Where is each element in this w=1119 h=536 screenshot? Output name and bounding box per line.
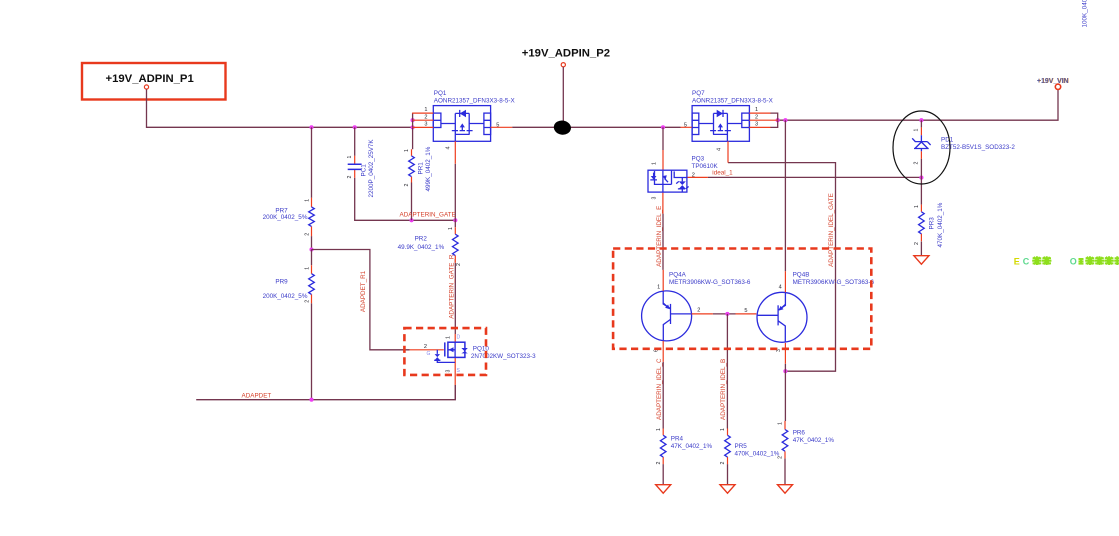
diode PD1 zener — [912, 127, 1015, 164]
svg-text:1: 1 — [404, 149, 410, 152]
svg-text:1: 1 — [657, 284, 660, 290]
wire PQ4B pin3 to PR6 — [784, 364, 786, 421]
svg-text:PR4: PR4 — [671, 435, 684, 442]
ground PR3 — [914, 256, 929, 265]
svg-text:D: D — [457, 335, 461, 341]
port +19V_VIN — [1037, 78, 1069, 90]
svg-text:PQ4A: PQ4A — [669, 272, 687, 279]
wire PR6 bottom — [784, 458, 786, 484]
wire PR3 bottom — [920, 242, 922, 256]
wire PD1 to PR3 — [920, 159, 922, 205]
svg-text:1: 1 — [424, 107, 427, 113]
svg-text:200K_0402_5%: 200K_0402_5% — [263, 293, 308, 300]
svg-text:1: 1 — [448, 227, 454, 230]
svg-text:1: 1 — [914, 129, 920, 132]
svg-text:ADAPDET: ADAPDET — [242, 393, 272, 400]
svg-text:3: 3 — [424, 122, 427, 128]
svg-text:BZT52-B5V1S_SOD323-2: BZT52-B5V1S_SOD323-2 — [941, 144, 1015, 151]
svg-text:4: 4 — [779, 284, 782, 290]
junction PR1 bottom — [409, 218, 413, 222]
svg-text:2: 2 — [424, 344, 427, 350]
green annotation O block — [1070, 256, 1119, 266]
svg-text:ADAPTERIN_GATE: ADAPTERIN_GATE — [400, 212, 456, 219]
wire PR2 bottom to PQ10 drain — [454, 263, 456, 334]
svg-text:3: 3 — [446, 370, 452, 373]
junction PD1 top — [919, 118, 923, 122]
wire PQ4A/PQ4B base link — [713, 313, 736, 315]
svg-text:ADAPTERIN_IDEL_E: ADAPTERIN_IDEL_E — [656, 206, 663, 267]
svg-text:C: C — [1023, 256, 1030, 266]
svg-text:2: 2 — [304, 233, 310, 236]
svg-text:PQ4B: PQ4B — [793, 272, 810, 279]
resistor PR2 — [398, 227, 462, 266]
svg-text:2: 2 — [347, 176, 353, 179]
svg-text:2: 2 — [424, 114, 427, 120]
junction PQ7 pin2 — [776, 118, 780, 122]
svg-text:4: 4 — [716, 148, 722, 151]
wire ideal_1 PQ3 pin2 to PD1 — [708, 176, 922, 178]
wire PD1 top stub upper — [920, 120, 922, 127]
svg-text:2: 2 — [778, 456, 784, 459]
svg-text:470K_0402_1%: 470K_0402_1% — [735, 450, 780, 457]
svg-text:PD1: PD1 — [941, 136, 954, 143]
resistor PR3 — [914, 202, 944, 247]
junction at PQ3 branch — [661, 125, 665, 129]
svg-text:PR5: PR5 — [735, 443, 748, 450]
resistor PR7 — [263, 198, 315, 236]
wire down to PQ3 pin1 — [662, 127, 664, 150]
svg-text:ADAPTERIN_IDEL_C: ADAPTERIN_IDEL_C — [656, 358, 663, 420]
wire PR1 top — [412, 127, 414, 149]
resistor PR1 — [404, 146, 432, 191]
svg-text:PR1: PR1 — [418, 162, 425, 175]
svg-text:ADAPTERIN_GATE_R: ADAPTERIN_GATE_R — [448, 254, 455, 319]
junction PQ4B pin3 node — [783, 369, 787, 373]
svg-text:2: 2 — [404, 184, 410, 187]
svg-text:4: 4 — [445, 146, 451, 149]
wire PQ7 pin connector vertical — [770, 113, 777, 127]
dashed box PQ10 — [404, 328, 486, 375]
svg-text:AONR21357_DFN3X3-8-5-X: AONR21357_DFN3X3-8-5-X — [434, 98, 516, 105]
svg-text:2: 2 — [656, 462, 662, 465]
wire PR4 bottom — [662, 464, 664, 485]
transistor PQ10 2N7002KW — [410, 334, 537, 385]
svg-text:METR3906KW-G_SOT363-6: METR3906KW-G_SOT363-6 — [669, 279, 751, 286]
svg-text:2: 2 — [697, 308, 700, 314]
wire PQ7 pin4 to PQ4B pin3 net — [728, 163, 836, 372]
svg-text:47K_0402_1%: 47K_0402_1% — [793, 437, 835, 444]
svg-text:PC1: PC1 — [361, 164, 368, 177]
wire PQ3 pin3 to PQ4A pin1 — [662, 214, 664, 270]
svg-text:5: 5 — [744, 308, 747, 314]
port +19V_ADPIN_P1 — [82, 63, 226, 100]
svg-text:2: 2 — [456, 263, 462, 266]
svg-text:1: 1 — [304, 267, 310, 270]
wire PR9 bottom to ADAPDET — [311, 303, 313, 399]
svg-text:49.9K_0402_1%: 49.9K_0402_1% — [398, 244, 445, 251]
wire ADAPTERIN_IDEL_B down — [726, 314, 728, 429]
wire PQ1 pin4 down through GATE node — [454, 164, 456, 227]
svg-text:1: 1 — [778, 422, 784, 425]
wire PR7 bottom to node — [311, 236, 313, 249]
svg-text:1: 1 — [347, 156, 353, 159]
junction PQ1 pin2 — [411, 118, 415, 122]
svg-text:5: 5 — [684, 122, 687, 128]
wire PR7 top — [311, 127, 313, 198]
ellipse highlight around PD1 — [893, 111, 950, 184]
svg-text:2: 2 — [755, 114, 758, 120]
ground PR5 — [720, 485, 735, 494]
junction PD1 bottom — [919, 176, 923, 180]
svg-text:PR3: PR3 — [928, 217, 935, 230]
svg-text:2: 2 — [304, 300, 310, 303]
PQ1 pin stubs — [412, 113, 512, 164]
svg-text:3: 3 — [755, 122, 758, 128]
wire ADAPDET — [196, 385, 455, 400]
wire PQ4B gate vertical — [784, 120, 786, 271]
svg-text:ADAPTERIN_IDEL_GATE: ADAPTERIN_IDEL_GATE — [828, 193, 835, 267]
PQ7 pin stubs — [681, 113, 778, 163]
wire PC1 bottom / ADAPTERIN_GATE — [355, 178, 456, 221]
svg-text:2: 2 — [720, 462, 726, 465]
svg-text:470K_0402_1%: 470K_0402_1% — [937, 202, 944, 247]
transistor PQ7 (mirrored) — [692, 106, 749, 142]
svg-text:PR2: PR2 — [415, 235, 428, 242]
svg-text:O: O — [1070, 256, 1077, 266]
junction PQ4B gate branch — [783, 118, 787, 122]
wire PQ7 right rail to +19V_VIN — [778, 90, 1058, 121]
svg-text:PR9: PR9 — [275, 278, 288, 285]
ground PR4 — [656, 485, 671, 494]
svg-text:200K_0402_5%: 200K_0402_5% — [263, 214, 308, 221]
svg-text:1: 1 — [656, 428, 662, 431]
capacitor PC1 — [347, 139, 375, 198]
svg-text:ideal_1: ideal_1 — [712, 170, 733, 177]
svg-text:E: E — [1014, 256, 1020, 266]
svg-text:5: 5 — [496, 122, 499, 128]
wire +19V_ADPIN_P1 to main rail — [147, 89, 413, 127]
transistor PQ3 TP0610K — [648, 150, 719, 214]
wire +19V_ADPIN_P2 down to rail — [562, 67, 564, 127]
wire PC1 top — [354, 127, 356, 156]
green annotation EC — [1014, 256, 1052, 266]
wire PQ1 pin connector vertical — [412, 113, 414, 127]
dashed box PQ4 pair — [613, 249, 871, 349]
svg-text:PR6: PR6 — [793, 430, 806, 437]
svg-text:METR3906KW-G_SOT363-6: METR3906KW-G_SOT363-6 — [793, 279, 875, 286]
svg-text:2: 2 — [692, 172, 695, 178]
wire PQ1 pin5 to PQ7 pin5 — [512, 126, 680, 128]
svg-text:PQ7: PQ7 — [692, 90, 705, 97]
svg-text:1: 1 — [304, 199, 310, 202]
junction blob node — [553, 119, 572, 135]
junction at PR7 branch — [309, 125, 313, 129]
svg-text:1: 1 — [720, 428, 726, 431]
resistor PR4 — [656, 428, 713, 465]
svg-text:ADAPTERIN_IDEL_B: ADAPTERIN_IDEL_B — [720, 359, 727, 420]
wire PR1 bottom — [411, 183, 413, 221]
svg-text:2N7002KW_SOT323-3: 2N7002KW_SOT323-3 — [471, 353, 536, 360]
svg-text:100K_0402_1%: 100K_0402_1% — [1081, 0, 1088, 28]
wire PR5 bottom — [727, 464, 729, 485]
svg-text:1: 1 — [755, 107, 758, 113]
wire ADAPDET_R1 to PQ10 gate — [312, 250, 410, 350]
svg-text:47K_0402_1%: 47K_0402_1% — [671, 443, 713, 450]
wire PR9 top — [311, 250, 313, 266]
resistor PR5 — [720, 428, 780, 465]
svg-text:G: G — [427, 351, 431, 357]
svg-text:AONR21357_DFN3X3-8-5-X: AONR21357_DFN3X3-8-5-X — [692, 98, 774, 105]
junction base node — [725, 312, 729, 316]
svg-text:1: 1 — [652, 162, 658, 165]
junction GATE corner — [453, 218, 457, 222]
svg-text:3: 3 — [652, 197, 658, 200]
transistor PQ4A — [642, 291, 692, 341]
svg-text:2: 2 — [914, 242, 920, 245]
svg-text:+19V_ADPIN_P1: +19V_ADPIN_P1 — [106, 73, 194, 85]
transistor PQ1 — [433, 106, 490, 142]
junction ADAPDET — [309, 398, 313, 402]
svg-text:+19V_VIN: +19V_VIN — [1037, 78, 1069, 85]
svg-text:PQ1: PQ1 — [434, 90, 447, 97]
svg-text:+19V_ADPIN_P2: +19V_ADPIN_P2 — [522, 48, 610, 60]
svg-text:PQ3: PQ3 — [692, 155, 705, 162]
transistor PQ4B (mirrored) — [757, 292, 807, 342]
ground PR6 — [778, 485, 793, 494]
junction ADAPDET_R1 — [309, 247, 313, 251]
svg-text:2200P_0402_25V7K: 2200P_0402_25V7K — [368, 139, 375, 198]
wire PQ10 source to ADAPDET — [454, 385, 456, 400]
svg-text:1: 1 — [914, 205, 920, 208]
junction at PC1 branch — [353, 125, 357, 129]
svg-text:ADAPDET_R1: ADAPDET_R1 — [360, 270, 367, 312]
svg-text:1: 1 — [446, 336, 452, 339]
port +19V_ADPIN_P2 — [522, 48, 610, 67]
resistor PR9 — [263, 265, 315, 303]
junction PQ1 pin3 — [411, 125, 415, 129]
svg-text:2: 2 — [914, 162, 920, 165]
resistor PR6 — [778, 421, 835, 459]
svg-text:499K_0402_1%: 499K_0402_1% — [425, 146, 432, 191]
wire PQ4A pin6 down — [662, 362, 664, 429]
